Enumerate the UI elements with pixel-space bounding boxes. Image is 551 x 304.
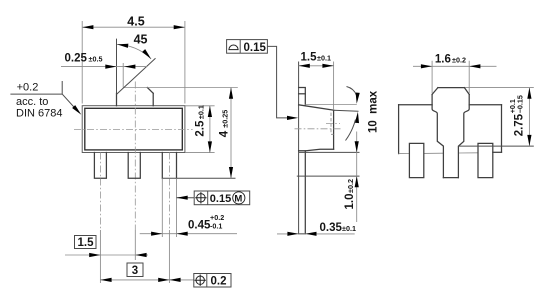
dimension 0.35 lead thickness	[277, 233, 355, 235]
svg-text:acc. to: acc. to	[16, 96, 48, 108]
label 4 +-0.25 rotated	[218, 110, 230, 137]
position symbol	[195, 192, 206, 203]
chamfer 45 deg construction diagonal	[117, 58, 156, 94]
svg-text:±0.2: ±0.2	[452, 56, 466, 65]
svg-text:0.35: 0.35	[320, 222, 343, 234]
dimension 45 deg arc	[117, 45, 152, 59]
svg-text:4: 4	[218, 130, 230, 137]
dimension 2.5 right of body	[185, 106, 215, 153]
body back view right edge	[501, 105, 503, 153]
horizontal center line of front view	[74, 128, 193, 130]
lead 1 extension line	[99, 230, 101, 283]
svg-text:DIN 6784: DIN 6784	[16, 107, 62, 119]
angle dimension 10 max	[347, 87, 357, 96]
svg-text:10 max: 10 max	[367, 90, 379, 133]
svg-text:±0.1: ±0.1	[317, 54, 331, 63]
boxed dimension 3	[127, 263, 143, 277]
dimension 1.0	[356, 132, 358, 223]
vertical center line of front view	[134, 82, 136, 231]
svg-text:0.15: 0.15	[244, 42, 267, 54]
svg-text:0.25: 0.25	[65, 53, 88, 65]
hidden tab edge dashed	[331, 113, 334, 135]
flatness tolerance frame 0.15	[227, 40, 268, 54]
tab front view right side	[152, 93, 154, 105]
body back view bottom edge segments	[399, 152, 478, 155]
lower reference line for dim 1.0	[297, 175, 360, 177]
svg-text:2.5: 2.5	[195, 120, 207, 137]
body front view inner outline	[85, 108, 183, 150]
svg-text:±0.25: ±0.25	[220, 110, 229, 128]
body right edge	[333, 110, 335, 149]
tab front view left side	[116, 93, 118, 105]
lead 3 tip line + extension for dim 4	[162, 177, 235, 179]
leader arrow of position frame 0.2	[169, 278, 180, 282]
svg-text:+0.2: +0.2	[17, 82, 39, 94]
dimension 0.45 lead width	[140, 233, 237, 235]
dim 4.5 extension lines	[82, 21, 185, 104]
slant extension for angle dim	[334, 110, 359, 111]
svg-text:0.2: 0.2	[211, 276, 227, 288]
tab back view right chamfer	[464, 88, 469, 95]
bottom reference line for dim 2.75	[458, 145, 533, 147]
body bottom right segment	[493, 151, 502, 153]
dimension 4.5 top	[82, 26, 185, 28]
tab top extension line for dim 2.75	[464, 87, 533, 89]
annotation underline	[10, 81, 62, 94]
svg-text:3: 3	[132, 265, 138, 277]
svg-text:±0.5: ±0.5	[89, 55, 103, 64]
lead 3 edge extension lines	[162, 178, 176, 237]
dimension 1.5 side view top	[299, 65, 334, 67]
center lead tip	[443, 177, 458, 179]
dimension 2.75	[528, 88, 530, 147]
body top edge slanted (draft)	[299, 105, 334, 110]
tab front view right chamfer	[147, 88, 153, 94]
svg-text:2.75: 2.75	[514, 113, 526, 136]
tab side view	[299, 88, 306, 105]
side view left face line (flat mounting face)	[298, 62, 300, 234]
hidden tab center line	[326, 123, 340, 125]
label 2.75 +0.1 -0.15 rotated	[508, 95, 526, 136]
tab back view top edge	[438, 87, 465, 89]
svg-text:0.15: 0.15	[210, 193, 231, 205]
side view horizontal center line	[295, 128, 342, 130]
tab back view left chamfer	[432, 88, 438, 95]
svg-text:1.5: 1.5	[301, 52, 318, 64]
svg-text:1.5: 1.5	[78, 237, 95, 249]
tab neck and center lead left profile	[432, 94, 443, 177]
dimension 0.25	[61, 66, 147, 68]
svg-text:±0.2: ±0.2	[346, 179, 355, 193]
dimension line 3	[100, 279, 193, 281]
svg-text:M: M	[234, 194, 242, 205]
svg-text:45: 45	[134, 33, 148, 47]
outer lead right back view	[478, 143, 493, 177]
lead 1 front view	[94, 153, 106, 179]
outer lead left back view	[409, 143, 423, 177]
lead tip side view	[299, 233, 306, 235]
svg-text:±0.1: ±0.1	[342, 224, 356, 233]
svg-text:0.45: 0.45	[188, 219, 211, 231]
dimension 1.6 tab width	[413, 65, 497, 67]
lead 3 center line	[168, 153, 170, 231]
dimension line 1.5	[65, 254, 148, 256]
lead 3 front view	[162, 153, 176, 179]
lead 3 center extension line	[168, 230, 170, 283]
body back view top edge segments	[399, 104, 502, 106]
tab top edge + extension line for dim 4	[123, 87, 238, 89]
svg-text:−0.15: −0.15	[516, 95, 525, 113]
svg-text:1.6: 1.6	[435, 54, 451, 66]
frame leader to side view	[267, 46, 291, 118]
boxed dimension 1.5	[75, 236, 97, 249]
0.25 extension line	[122, 63, 124, 88]
seating line for dim 1.0	[299, 151, 360, 153]
dimension 4 overall	[230, 88, 232, 179]
lead 1 center line	[99, 153, 101, 231]
center line solid lower extension	[134, 230, 136, 260]
svg-text:1.0: 1.0	[344, 194, 356, 210]
lead side view right edge	[304, 151, 306, 234]
lead 2 front view	[128, 153, 140, 179]
tab neck and center lead right profile	[458, 94, 469, 177]
svg-text:±0.1: ±0.1	[197, 105, 206, 119]
body back view left edge	[398, 105, 400, 154]
svg-text:4.5: 4.5	[127, 14, 144, 28]
body bottom edge	[299, 149, 334, 151]
position tolerance frame 0.15 M	[194, 191, 250, 205]
body front view outer outline	[82, 106, 185, 153]
tab side view chamfer edge	[299, 93, 306, 95]
position tolerance frame 0.2	[194, 274, 231, 288]
angle reference horizontal	[305, 104, 357, 106]
flatness symbol	[229, 45, 238, 50]
M circle symbol	[233, 192, 245, 204]
label 2.5 +-0.1 rotated	[195, 105, 207, 136]
right edge extension up for dim 1.5	[333, 62, 335, 111]
svg-text:-0.1: -0.1	[210, 221, 222, 230]
leader of position frame	[177, 197, 195, 199]
annotation leader arrow	[62, 94, 78, 111]
45 deg vertical extension line	[116, 39, 118, 94]
dim 1.6 extension lines	[432, 61, 469, 93]
